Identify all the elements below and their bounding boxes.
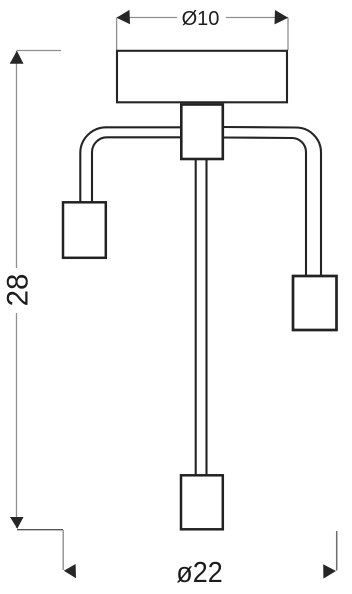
- extension line bottom of dimension 28: [17, 529, 63, 531]
- center stem tube left line: [195, 158, 197, 476]
- arrowhead Ø10 left: [117, 10, 131, 24]
- extension line right of Ø10: [287, 18, 289, 51]
- arrowhead 28 up: [10, 51, 24, 64]
- svg-text:Ø10: Ø10: [182, 8, 220, 30]
- arrowhead Ø10 right: [275, 10, 289, 24]
- canopy (ceiling plate): [117, 51, 287, 103]
- arrowhead ø22 right: [323, 564, 336, 578]
- arrowhead ø22 left: [64, 564, 76, 578]
- dimension line 28 upper segment: [16, 51, 18, 268]
- dimension line 28 lower segment: [16, 313, 18, 528]
- extension line top of dimension 28: [17, 50, 62, 52]
- junction box (central hub): [181, 105, 223, 160]
- dimension line Ø10 (top, left segment): [117, 17, 177, 19]
- left arm tube outer line: [80, 127, 182, 203]
- svg-text:28: 28: [2, 274, 35, 307]
- extension line right of dimension ø22: [336, 531, 338, 571]
- right lamp socket: [293, 276, 337, 330]
- dimension line Ø10 (top, right segment): [226, 17, 288, 19]
- right arm tube inner line: [222, 138, 306, 277]
- left arm tube inner line: [92, 137, 182, 203]
- svg-text:ø22: ø22: [176, 556, 222, 588]
- bottom lamp socket: [181, 475, 223, 529]
- left lamp socket: [63, 202, 106, 257]
- extension line left of dimension ø22: [62, 530, 64, 570]
- right arm tube outer line: [222, 127, 321, 276]
- arrowhead 28 down: [10, 517, 24, 529]
- center stem tube right line: [205, 158, 207, 476]
- extension line left of Ø10: [116, 18, 118, 51]
